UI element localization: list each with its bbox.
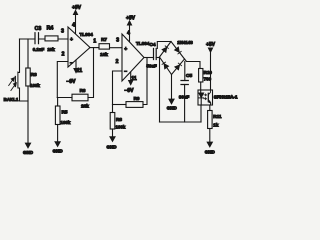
power +9V (U1B) xyxy=(126,16,136,42)
svg-text:10k: 10k xyxy=(47,47,55,52)
wire R5 to ground xyxy=(57,125,59,142)
svg-text:TL064: TL064 xyxy=(136,41,150,46)
svg-text:C3: C3 xyxy=(35,26,42,32)
svg-text:2: 2 xyxy=(116,59,119,65)
wire C4 to bridge xyxy=(156,57,159,59)
svg-text:R6: R6 xyxy=(80,88,86,93)
resistor R10 xyxy=(199,69,203,83)
wire C5 to rail xyxy=(184,85,186,123)
diode bridge D1-D4 xyxy=(160,42,185,75)
svg-text:+9V: +9V xyxy=(72,5,82,11)
wire R5 top xyxy=(57,98,59,107)
wire bridge bottom to ground xyxy=(171,75,173,100)
power -9V (U1B) xyxy=(124,72,134,94)
wire sensor branch xyxy=(19,39,21,72)
ground GND2 xyxy=(53,142,64,154)
svg-text:2: 2 xyxy=(62,52,65,58)
svg-text:R8: R8 xyxy=(116,117,122,122)
wire feedback left segment xyxy=(57,97,72,99)
wire R10 to optocoupler xyxy=(200,82,202,89)
svg-text:4: 4 xyxy=(72,23,75,29)
wire feedback right segment xyxy=(88,48,94,98)
wire feedback U1B right xyxy=(143,58,147,105)
svg-text:0.1uF: 0.1uF xyxy=(33,47,45,52)
wire bridge left to rail xyxy=(159,57,161,122)
svg-text:10k: 10k xyxy=(100,52,108,57)
svg-text:3: 3 xyxy=(116,38,119,44)
ground GND4 xyxy=(167,99,178,110)
wire sensor bottom xyxy=(20,88,29,101)
piezo sensor BAKL1 xyxy=(9,72,20,91)
wire R11 to ground xyxy=(209,129,211,143)
wire optocoupler LED cathode to rail xyxy=(200,105,202,122)
wire bottom rail xyxy=(160,121,202,123)
ground GND3 xyxy=(107,137,118,150)
svg-text:GND: GND xyxy=(107,145,118,150)
svg-text:3: 3 xyxy=(61,29,64,35)
wire R8 top xyxy=(112,105,114,113)
svg-text:−9V: −9V xyxy=(124,88,134,94)
svg-text:−9V: −9V xyxy=(66,79,76,85)
wire R8 to ground xyxy=(112,129,114,137)
svg-text:+: + xyxy=(70,37,73,43)
wire input top rail xyxy=(20,38,69,40)
svg-text:100k: 100k xyxy=(30,83,40,88)
resistor R7 xyxy=(99,44,110,49)
svg-text:50uF: 50uF xyxy=(146,64,157,69)
wire R7 to U1B pin3 xyxy=(110,47,123,49)
op-amp U1A TL064 xyxy=(68,27,90,67)
svg-text:C4: C4 xyxy=(149,42,155,48)
resistor R8 xyxy=(110,113,115,130)
resistor R11 xyxy=(208,111,213,129)
power -9V (U1A) xyxy=(66,60,78,85)
svg-text:1: 1 xyxy=(93,39,96,45)
ground GND1 xyxy=(23,143,34,155)
svg-text:GND: GND xyxy=(23,150,34,155)
svg-text:R10: R10 xyxy=(204,70,213,75)
power +5V xyxy=(206,42,216,89)
svg-text:SFH615A-1: SFH615A-1 xyxy=(214,94,238,99)
capacitor C4 xyxy=(154,49,157,60)
wire C5 top xyxy=(184,62,186,81)
svg-text:C5: C5 xyxy=(186,73,192,79)
wire U1B output xyxy=(144,57,154,59)
svg-text:GND: GND xyxy=(167,106,178,111)
svg-text:R4: R4 xyxy=(47,26,54,32)
svg-text:GND: GND xyxy=(205,150,216,155)
resistor R5 xyxy=(55,106,60,125)
svg-text:100k: 100k xyxy=(61,120,71,125)
optocoupler U2 SFH615A-1 xyxy=(198,90,213,105)
svg-text:100k: 100k xyxy=(116,125,126,130)
svg-text:+: + xyxy=(124,47,127,53)
wire R3 branch top xyxy=(27,39,29,68)
wire optocoupler emitter to R11 xyxy=(209,105,211,111)
power +9V (U1A) xyxy=(72,5,82,34)
svg-text:GND: GND xyxy=(53,149,64,154)
svg-text:1k: 1k xyxy=(213,123,219,128)
svg-text:−: − xyxy=(70,61,73,67)
wire bridge right to R10 xyxy=(185,59,201,69)
resistor R4 xyxy=(45,36,58,41)
wire feedback U1B left xyxy=(113,104,127,106)
svg-text:BAKL1: BAKL1 xyxy=(4,97,19,102)
capacitor C5 xyxy=(181,81,188,85)
svg-text:1N4148: 1N4148 xyxy=(177,40,193,45)
capacitor C3 xyxy=(35,33,39,44)
wire U1B pin2 xyxy=(113,71,123,105)
svg-text:−: − xyxy=(124,69,127,75)
resistor R6 xyxy=(72,94,88,101)
svg-text:20k: 20k xyxy=(81,104,89,109)
resistor R9 xyxy=(126,102,143,108)
svg-text:R9: R9 xyxy=(134,96,140,101)
svg-text:R7: R7 xyxy=(101,37,107,42)
svg-text:+5V: +5V xyxy=(206,42,216,48)
svg-text:TL064: TL064 xyxy=(80,32,94,37)
wire to ground left xyxy=(27,86,29,143)
ground GND5 xyxy=(205,142,216,154)
op-amp U1B TL064 xyxy=(122,34,144,81)
svg-text:R5: R5 xyxy=(62,110,68,115)
wire bridge top to C4 xyxy=(157,42,171,49)
resistor R3 xyxy=(26,68,30,86)
wire U1A output xyxy=(90,47,100,49)
wire pin2 to feedback node xyxy=(57,62,68,98)
svg-text:R11: R11 xyxy=(213,114,222,119)
svg-text:R3: R3 xyxy=(31,72,37,77)
svg-text:+9V: +9V xyxy=(126,16,136,22)
